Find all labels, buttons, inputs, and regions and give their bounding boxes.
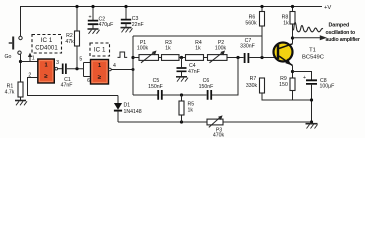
resistor R2 [65,31,79,46]
potentiometer P2 [208,40,228,63]
svg-text:R6: R6 [249,14,256,20]
IC1 label box CD4001 [32,35,62,54]
node rail/R2 [75,5,78,8]
node chain A [131,56,134,59]
wire R3 to node [179,57,186,59]
svg-text:100µF: 100µF [320,84,335,90]
svg-text:47k: 47k [65,39,74,45]
resistor R6 [245,12,264,27]
wire gate2 output to node column [111,69,133,71]
svg-text:1: 1 [98,63,101,69]
resistor R8 [282,12,295,27]
svg-text:+: + [88,15,91,21]
wire R2 column [76,46,78,69]
capacitor C5 [148,78,163,100]
svg-text:47nF: 47nF [188,69,200,75]
node pin4/column [132,68,135,71]
wire collector column [292,24,294,44]
resistor R4 [186,40,204,61]
wire R1 to ground [20,97,22,101]
svg-text:T1: T1 [309,48,316,54]
node C5/C6/R5 [180,93,183,96]
diode D1 [114,96,142,123]
svg-text:IC 1: IC 1 [94,46,106,53]
svg-text:1: 1 [32,56,35,62]
trigger edge arrow [28,53,35,62]
node rail/C2 [91,5,94,8]
capacitor C3 [121,7,144,29]
wire R4-P2 [204,57,208,59]
node emitter/C8 [291,70,294,73]
resistor R3 [162,40,180,61]
svg-text:1: 1 [44,63,47,69]
svg-text:+V: +V [324,5,331,11]
svg-text:≥: ≥ [98,74,102,81]
gate IC1a (NOR) [38,59,55,83]
wire gate1 output to C1 [58,68,62,70]
transistor T1 [274,43,293,66]
svg-text:100k: 100k [215,46,227,52]
svg-text:audio amplifier: audio amplifier [326,37,360,43]
wire C7 to base node [249,57,276,59]
svg-text:1k: 1k [165,46,171,52]
svg-text:1N4148: 1N4148 [124,109,142,115]
ground (C4) [176,77,188,82]
svg-text:150nF: 150nF [199,84,214,90]
svg-text:CD4001: CD4001 [35,46,58,52]
svg-text:47nF: 47nF [61,83,73,89]
svg-text:330k: 330k [246,83,258,89]
wire C1 to gate2 inputs [67,68,84,70]
wire input bracket pins 5,6 [84,63,91,77]
svg-text:4.7k: 4.7k [5,90,15,96]
svg-text:1k: 1k [195,46,201,52]
wire bottom bus [118,121,312,123]
svg-text:+: + [303,75,306,81]
ground (C2) [88,29,100,34]
wire +V top rail [21,7,323,37]
node rail/C3 [124,5,127,8]
svg-text:4: 4 [113,63,116,69]
capacitor C6 [199,78,214,100]
svg-text:R8: R8 [282,14,289,20]
wire to C4 [181,58,183,68]
output arrow [293,35,328,40]
svg-text:IC 1: IC 1 [41,37,53,44]
capacitor C1 [61,64,73,89]
svg-text:150: 150 [279,82,288,88]
node R5 bottom [180,120,183,123]
ground (R1) [15,101,27,106]
capacitor C8 [303,75,334,89]
node collector/output [291,36,294,39]
node ground bus upper [310,98,313,101]
svg-text:150nF: 150nF [148,84,163,90]
ground (main) [306,124,318,129]
wire node A column [132,36,134,95]
ground (C3) [121,28,133,33]
svg-text:D1: D1 [124,102,131,108]
svg-text:oscillation to: oscillation to [326,30,355,36]
svg-text:1k: 1k [283,21,289,27]
wire bias rail y36 [133,35,262,37]
wire emitter column [292,66,294,79]
svg-text:22nF: 22nF [132,22,144,28]
potentiometer P3 [207,115,225,138]
wire switch to R1 column [20,54,22,82]
wire C8 to ground node [311,84,313,124]
wire R6 column [261,7,263,58]
capacitor C4 [177,63,200,75]
output caption [326,23,360,44]
wire R7 bottom to ground bus [262,93,312,100]
svg-text:BC549C: BC549C [302,54,324,60]
wire C-row [133,58,238,96]
svg-text:330nF: 330nF [240,43,255,49]
svg-text:560k: 560k [245,21,257,27]
wire R2 to rail [76,7,78,32]
wire C4 to ground [181,72,183,77]
svg-text:Go: Go [5,54,12,60]
wire gate1 pin2 feedback [28,78,119,96]
svg-text:3: 3 [56,60,59,66]
node ground bus lower [310,120,313,123]
svg-text:470k: 470k [213,133,225,139]
output bubble gate IC1b [109,68,112,71]
node rail/R8 [291,5,294,8]
wire emitter to C8 [293,72,312,80]
gate IC1b (NOR) [91,60,109,85]
resistor R1 [5,82,23,97]
IC1 label box (gate2) [90,43,110,56]
output bubble gate IC1a [55,67,58,70]
resistor R5 [179,95,194,122]
svg-text:R7: R7 [250,76,257,82]
resistor R7 [246,76,265,93]
node base/R6/R7 [260,56,263,59]
pulse symbol [118,52,128,57]
potentiometer P1 [137,40,159,63]
wire trigger to gate pin 1 [21,61,38,63]
damped oscillation waveform [294,22,324,31]
wire R9 to ground bus [292,91,294,101]
node junction switch/pin1 [19,60,22,63]
capacitor C2 [88,7,114,30]
wire chain segment [133,57,139,59]
svg-text:1k: 1k [188,107,194,113]
wire R8 to rail [292,7,294,12]
capacitor C7 [240,38,255,63]
svg-text:6: 6 [87,78,90,84]
svg-text:≥: ≥ [44,73,48,80]
node C1/R2/inputs [75,67,78,70]
resistor R9 [279,76,295,91]
wire P1-R3 [159,57,162,59]
svg-text:5: 5 [79,56,82,62]
svg-text:470µF: 470µF [99,22,114,28]
svg-text:100k: 100k [137,46,149,52]
switch S1 Go [5,36,23,60]
svg-text:Damped: Damped [329,23,350,29]
wire P2 to node B [227,57,244,59]
node rail/R6 [260,5,263,8]
node C4 junction [180,56,183,59]
node B [236,56,239,59]
